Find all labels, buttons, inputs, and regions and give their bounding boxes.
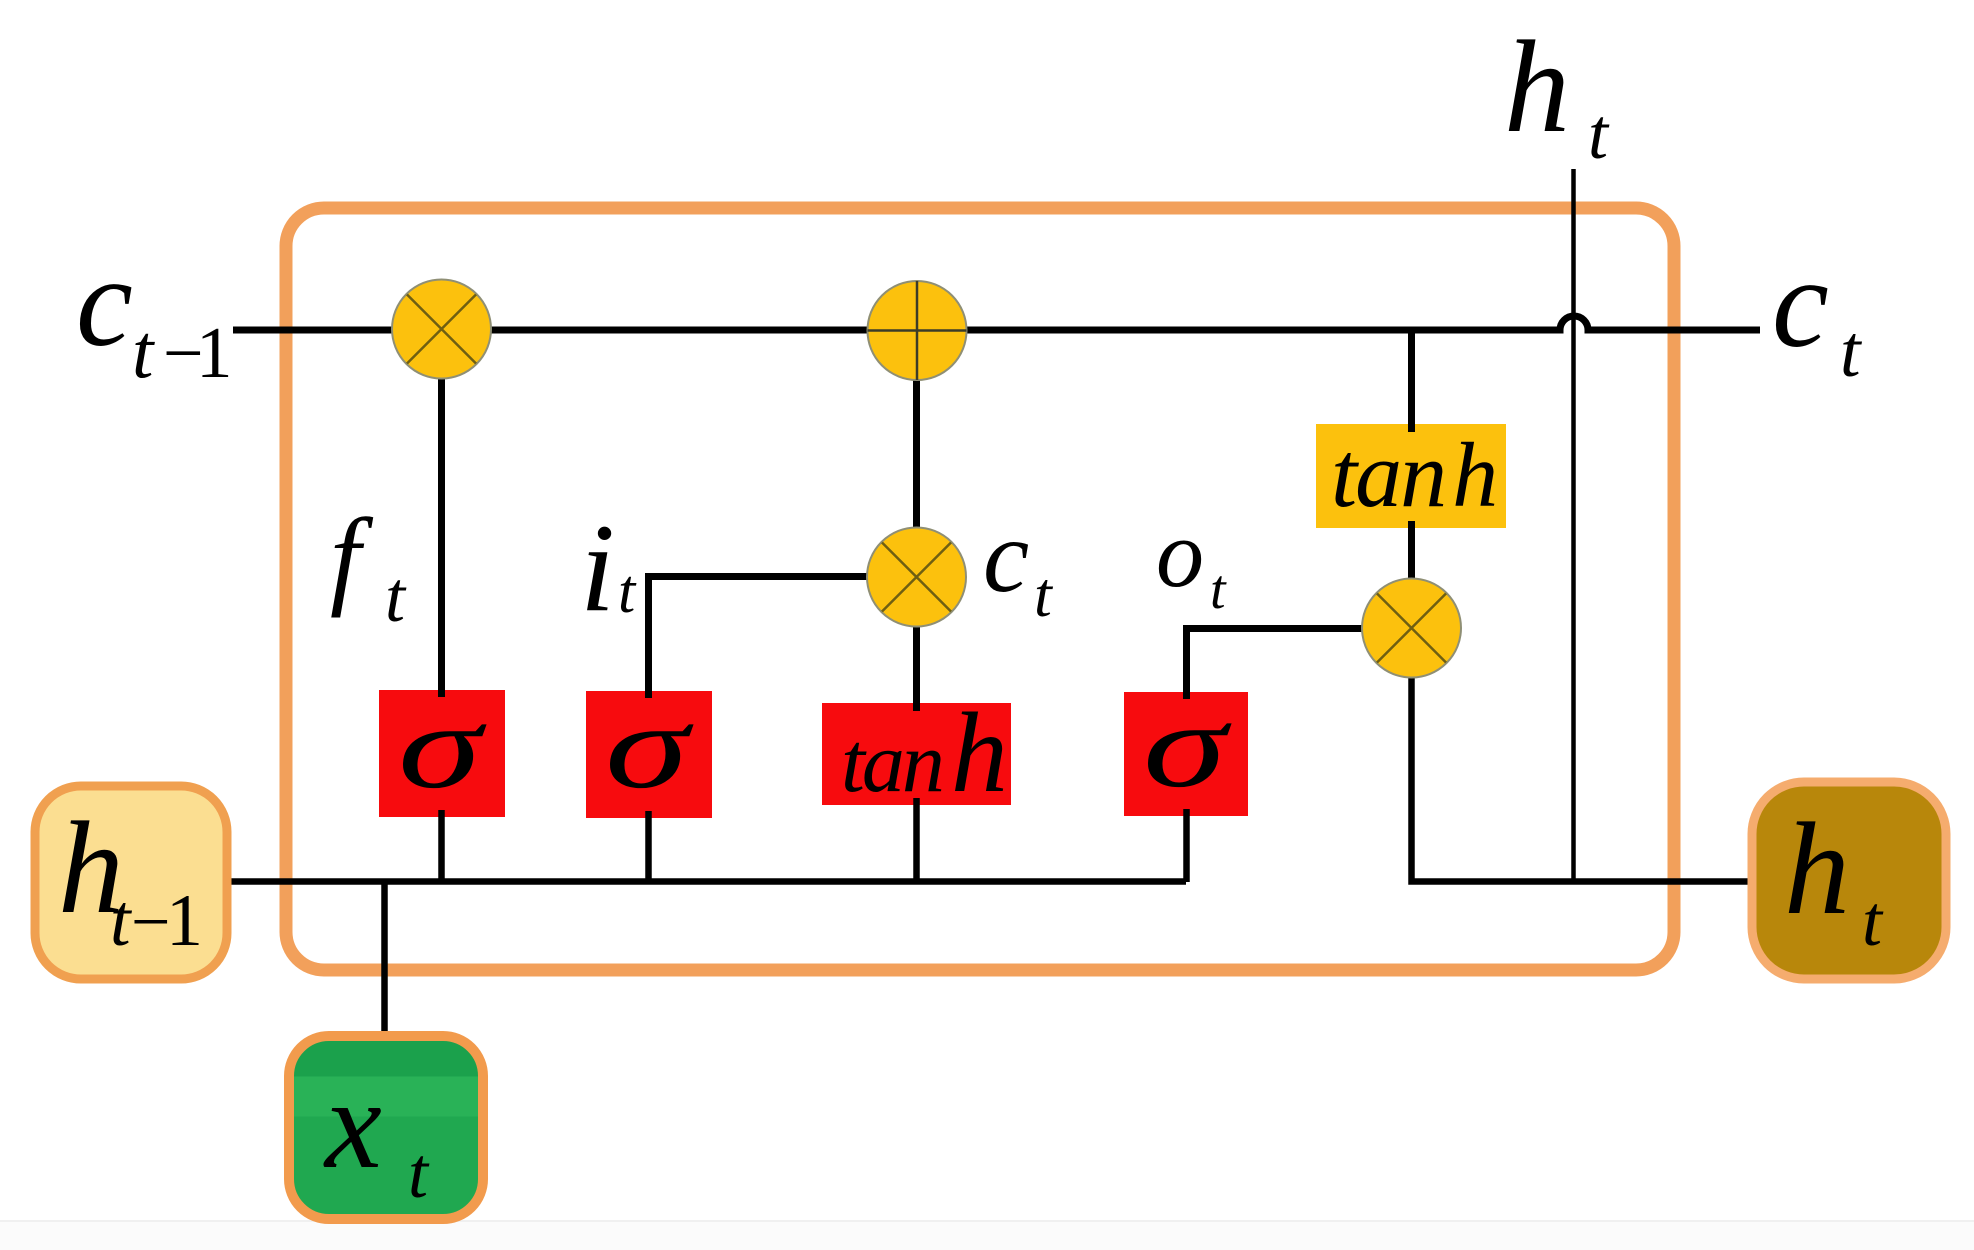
wire c-line right segment with hop bbox=[965, 316, 1760, 330]
wire input gate vertical lower bbox=[645, 811, 652, 882]
LSTM cell border bbox=[286, 208, 1674, 970]
multiply node output bbox=[1362, 579, 1461, 678]
wire c-line middle segment bbox=[490, 327, 870, 334]
faint baseline artifact bbox=[0, 1222, 1974, 1250]
svg-text:σ: σ bbox=[605, 679, 695, 814]
svg-text:t: t bbox=[1862, 881, 1884, 961]
wire ht-1 horizontal line bbox=[222, 878, 1186, 885]
svg-text:1: 1 bbox=[196, 312, 233, 393]
svg-text:t: t bbox=[132, 308, 155, 394]
wire candidate multiply to tanh gate bbox=[913, 625, 920, 711]
multiply node candidate bbox=[867, 528, 966, 627]
svg-text:σ: σ bbox=[398, 679, 488, 814]
xt input box bbox=[289, 1036, 483, 1219]
svg-text:x: x bbox=[323, 1053, 382, 1195]
svg-text:i: i bbox=[580, 499, 615, 638]
ht-1 input box bbox=[35, 786, 227, 979]
wire input gate L to multiply node bbox=[649, 577, 869, 699]
svg-text:c: c bbox=[983, 499, 1029, 614]
wire tanh gate vertical lower bbox=[913, 798, 920, 882]
svg-text:h: h bbox=[1504, 13, 1570, 160]
svg-text:tanh: tanh bbox=[1331, 423, 1498, 527]
svg-text:t: t bbox=[408, 1133, 430, 1213]
svg-text:−: − bbox=[131, 884, 170, 961]
wire ht vertical branch bbox=[1571, 169, 1576, 884]
wire output gate L to output multiply node bbox=[1187, 629, 1366, 700]
tanh gate box candidate bbox=[822, 703, 1011, 805]
wire c-line to tanh output block bbox=[1408, 330, 1415, 432]
svg-text:t: t bbox=[1210, 559, 1227, 621]
wire tanh output block to output multiply node bbox=[1408, 521, 1415, 580]
plus node bbox=[868, 281, 967, 380]
svg-text:t: t bbox=[1034, 559, 1054, 630]
wire forget gate vertical upper bbox=[438, 376, 445, 697]
wire output gate vertical lower bbox=[1183, 809, 1190, 882]
wire c-line left segment bbox=[233, 327, 395, 334]
wire plus node to candidate multiply node bbox=[913, 378, 920, 530]
sigma gate box output bbox=[1124, 692, 1248, 816]
svg-text:σ: σ bbox=[1143, 678, 1233, 813]
sigma gate box forget bbox=[379, 690, 505, 817]
wire xt vertical bbox=[381, 882, 388, 1043]
svg-text:t: t bbox=[1588, 94, 1610, 174]
svg-text:t: t bbox=[385, 557, 407, 637]
svg-text:o: o bbox=[1156, 500, 1204, 607]
svg-text:t: t bbox=[1840, 311, 1863, 393]
svg-text:t: t bbox=[110, 880, 133, 962]
wire forget gate vertical lower bbox=[438, 810, 445, 882]
svg-text:h: h bbox=[1784, 795, 1850, 942]
tanh output block bbox=[1316, 424, 1506, 528]
svg-text:c: c bbox=[76, 231, 133, 373]
sigma gate box input bbox=[586, 691, 712, 818]
svg-text:t: t bbox=[618, 558, 637, 626]
multiply node forget bbox=[392, 280, 491, 379]
svg-text:1: 1 bbox=[166, 880, 203, 962]
wire output multiply node down and right to ht box bbox=[1412, 676, 1759, 882]
svg-text:c: c bbox=[1772, 232, 1829, 374]
ht output box bbox=[1752, 782, 1946, 979]
